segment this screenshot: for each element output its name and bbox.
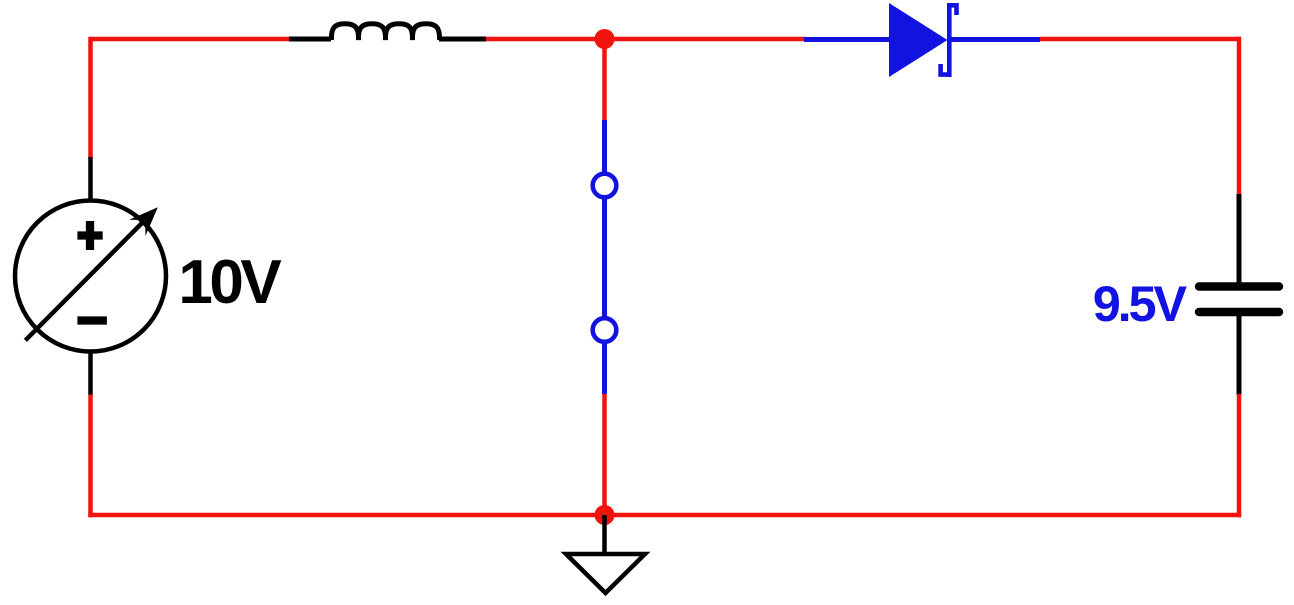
switch S1 (closed)	[593, 120, 617, 394]
wire: right rail, upper (corner to capacitor)	[1237, 37, 1242, 196]
svg-text:9.5V: 9.5V	[1093, 275, 1188, 332]
wire: left rail, upper (corner to source)	[88, 37, 93, 158]
ground	[566, 515, 645, 593]
diode D1 (Schottky)	[804, 3, 1040, 77]
wire: right rail, lower (capacitor to corner)	[1237, 394, 1242, 517]
wire: top rail, diode to top-right corner	[1040, 37, 1241, 42]
voltage source V1 (variable)	[15, 157, 166, 395]
wire: center column, lower red (switch to bottom node)	[602, 394, 607, 515]
wire: top rail, inductor to top node	[486, 37, 605, 42]
capacitor C1	[1199, 194, 1279, 395]
node: top junction dot	[595, 29, 615, 49]
wire: center column, upper red (top node to switch)	[602, 39, 607, 121]
wire: bottom rail	[88, 513, 1241, 518]
wire: left rail, lower (source to corner)	[88, 395, 93, 518]
wire: top rail, top node to diode	[605, 37, 807, 42]
svg-text:10V: 10V	[178, 248, 281, 317]
node: bottom junction dot	[595, 505, 615, 525]
wire: top rail, source to inductor	[91, 37, 292, 42]
inductor L1	[289, 24, 486, 40]
